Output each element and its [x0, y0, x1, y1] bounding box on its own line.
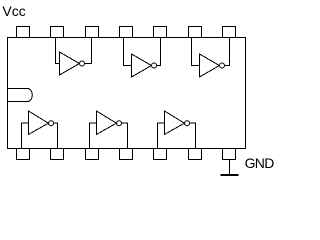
IC U1 body outline: [8, 38, 246, 149]
pin 9 (bottom): [51, 149, 64, 160]
pin 14 (bottom, GND): [223, 149, 236, 160]
wire U1A output to pin3: [85, 38, 92, 64]
wire pin10 to U1E input: [90, 123, 97, 148]
ground symbol bar: [221, 174, 239, 176]
inverter U1B triangle: [132, 54, 152, 77]
pin 7 (top): [223, 27, 236, 38]
wire U1E output to pin11: [122, 123, 128, 148]
wire pin14 to ground: [229, 160, 231, 176]
inverter U1D triangle: [29, 111, 49, 134]
pin 6 (top): [189, 27, 202, 38]
pin 13 (bottom): [189, 149, 202, 160]
inverter U1A bubble: [80, 61, 85, 66]
inverter U1C triangle: [200, 54, 220, 77]
wire pin12 to U1F input: [158, 123, 165, 148]
inverter U1A triangle: [60, 52, 80, 75]
pin 1 (top, Vcc): [17, 27, 30, 38]
wire pin4 to U1B input: [124, 38, 132, 66]
pin 11 (bottom): [120, 149, 133, 160]
pin 3 (top): [86, 27, 99, 38]
pin 10 (bottom): [86, 149, 99, 160]
inverter U1E bubble: [117, 121, 122, 126]
orientation notch tab: [8, 89, 33, 102]
pin 2 (top): [51, 27, 64, 38]
pin 8 (bottom): [17, 149, 30, 160]
wire U1B output to pin5: [157, 38, 161, 66]
net label Vcc: [2, 4, 25, 18]
wire pin8 to U1D input: [22, 123, 29, 148]
wire U1D output to pin9: [54, 123, 58, 148]
inverter U1E triangle: [97, 111, 117, 134]
wire U1C output to pin7: [225, 38, 230, 66]
wire pin6 to U1C input: [192, 38, 200, 66]
inverter U1F triangle: [165, 111, 185, 134]
pin 4 (top): [120, 27, 133, 38]
inverter U1D bubble: [49, 121, 54, 126]
inverter U1F bubble: [185, 121, 190, 126]
pin 5 (top): [154, 27, 167, 38]
inverter U1C bubble: [220, 63, 225, 68]
wire pin2 to U1A input: [56, 38, 60, 64]
inverter U1B bubble: [152, 63, 157, 68]
wire U1F output to pin13: [190, 123, 196, 148]
pin 12 (bottom): [154, 149, 167, 160]
net label GND: [245, 156, 274, 170]
